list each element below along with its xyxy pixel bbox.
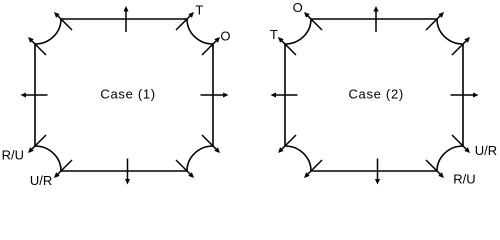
svg-text:R/U: R/U (2, 147, 24, 162)
Case 2 plate diagonal arrow at top-right corner, right-edge end (452, 37, 470, 55)
Case 2 plate diagonal arrow at top-left corner, top-edge end (304, 12, 322, 30)
svg-text:R/U: R/U (453, 172, 475, 187)
Case 2 plate diagonal arrow at top-right corner, top-edge end (426, 12, 444, 30)
Case 1 plate right edge mid arrow (outward) (201, 92, 229, 97)
svg-text:Case (1): Case (1) (100, 86, 155, 101)
Case 1 plate diagonal arrow at top-left corner, left-edge end (28, 37, 46, 55)
Case 1 plate diagonal arrow at top-right corner, top-edge end (176, 12, 194, 30)
Case 1 plate diagonal arrow at bottom-left corner, left-edge end (28, 135, 46, 153)
Case 2 plate diagonal arrow at bottom-left corner, bottom-edge end (304, 160, 322, 178)
Case 2 plate diagonal arrow at top-left corner, left-edge end (278, 37, 296, 55)
svg-text:O: O (220, 29, 230, 44)
Case 2 plate bottom edge mid arrow (outward) (375, 159, 380, 185)
svg-text:T: T (195, 3, 203, 18)
plate outline Case 2 plate (rectangle with concave corner arcs) (285, 19, 463, 171)
Case 2 plate left edge mid arrow (outward) (271, 92, 298, 97)
Case 1 plate diagonal arrow at top-right corner, right-edge end (202, 37, 220, 55)
Case 1 plate top edge mid arrow (outward) (123, 6, 128, 32)
Case 2 plate diagonal arrow at bottom-left corner, left-edge end (278, 135, 296, 153)
Case 2 plate top edge mid arrow (outward) (373, 6, 378, 32)
Case 1 plate diagonal arrow at bottom-right corner, right-edge end (202, 135, 220, 153)
svg-text:O: O (293, 0, 303, 15)
Case 2 plate diagonal arrow at bottom-right corner, bottom-edge end (426, 160, 444, 178)
svg-text:U/R: U/R (30, 173, 52, 188)
Case 1 plate diagonal arrow at bottom-right corner, bottom-edge end (176, 160, 194, 178)
Case 2 plate right edge mid arrow (outward) (451, 92, 479, 97)
Case 1 plate left edge mid arrow (outward) (21, 92, 48, 97)
svg-text:T: T (270, 27, 278, 42)
Case 1 plate diagonal arrow at top-left corner, top-edge end (54, 12, 72, 30)
Case 1 plate diagonal arrow at bottom-left corner, bottom-edge end (54, 160, 72, 178)
svg-text:Case (2): Case (2) (348, 86, 403, 101)
plate outline Case 1 plate (rectangle with concave corner arcs) (35, 19, 213, 171)
Case 2 plate diagonal arrow at bottom-right corner, right-edge end (452, 135, 470, 153)
Case 1 plate bottom edge mid arrow (outward) (125, 159, 130, 185)
svg-text:U/R: U/R (475, 143, 497, 158)
